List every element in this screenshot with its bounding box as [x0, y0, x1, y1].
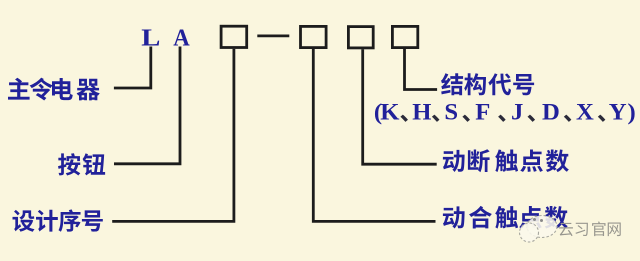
svg-text:F: F — [475, 100, 490, 125]
label 结构代号 (structure code) — [441, 73, 534, 95]
svg-text:J: J — [511, 100, 523, 125]
watermark text 云习官网 — [559, 221, 621, 236]
label 主令电器 (master electric appliance) — [8, 78, 100, 101]
wire: box1 to 设计序号 — [112, 49, 234, 222]
box 3 (NC contacts) — [348, 27, 373, 48]
svg-text:L: L — [141, 23, 160, 50]
wire: A to 按钮 — [114, 47, 180, 164]
structure code letters (K、H、S、F、J、D、X、Y) — [374, 100, 636, 125]
svg-text:): ) — [628, 100, 636, 125]
label 设计序号 (design serial number) — [13, 209, 103, 231]
svg-text:A: A — [173, 25, 189, 52]
box 2 (NO contacts) — [301, 26, 327, 47]
wire: box3 to 动断触点数 — [363, 49, 437, 164]
box 1 (design number) — [221, 26, 247, 47]
svg-text:X: X — [576, 100, 594, 125]
svg-text:S: S — [444, 100, 458, 125]
wire: L to 主令电器 — [114, 47, 151, 89]
label 动合触点数 (NO contact count) — [443, 206, 568, 229]
hyphen between box1 and box2 — [257, 35, 289, 38]
label 按钮 (push button) — [58, 153, 105, 175]
svg-text:D: D — [542, 100, 560, 125]
wire: box4 to 结构代号 — [405, 47, 438, 89]
wire: box2 to 动合触点数 — [313, 49, 435, 221]
box 4 (structure code) — [392, 26, 417, 47]
label 动断触点数 (NC contact count) — [443, 149, 569, 172]
svg-text:Y: Y — [609, 100, 627, 125]
svg-text:K: K — [380, 100, 399, 125]
watermark cloud logo — [520, 216, 558, 243]
svg-text:H: H — [412, 100, 431, 125]
